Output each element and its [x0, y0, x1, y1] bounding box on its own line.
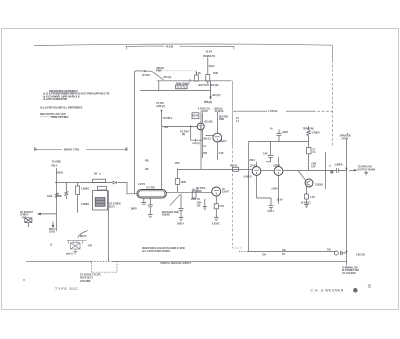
wire B+ arrow	[205, 81, 212, 103]
wire to V1	[162, 126, 198, 128]
svg-text:PIN 1: PIN 1	[250, 160, 256, 162]
svg-text:O.T. PRI: O.T. PRI	[146, 187, 155, 189]
svg-text:OUTPUT TRANS: OUTPUT TRANS	[358, 168, 376, 171]
wire heater column	[202, 113, 204, 159]
svg-text:47K: 47K	[88, 244, 93, 247]
svg-text:+260V: +260V	[271, 188, 278, 190]
values note	[142, 247, 185, 253]
dashed chassis vertical left	[233, 81, 243, 248]
resistor R6	[307, 148, 311, 171]
transistor Q1	[305, 179, 313, 187]
svg-text:pilot lt: pilot lt	[66, 253, 73, 256]
svg-text:FINAL CKT REV: FINAL CKT REV	[51, 116, 69, 119]
svg-text:4700 MMF: 4700 MMF	[80, 280, 91, 283]
wire screen rail	[249, 141, 309, 143]
capacitor C8	[266, 142, 274, 162]
ground under driver	[203, 199, 207, 210]
svg-text:C.H. & WEGNER: C.H. & WEGNER	[311, 289, 344, 293]
svg-text:SECT: SECT	[109, 206, 116, 208]
svg-text:25K: 25K	[58, 196, 63, 198]
wire to socket arrow	[38, 213, 57, 215]
output transformer O.T.	[137, 190, 166, 199]
svg-text:SEE PHOTO LOG 1776: SEE PHOTO LOG 1776	[40, 113, 66, 116]
svg-text:CAP: CAP	[263, 153, 268, 156]
wire center tap B+	[161, 111, 163, 190]
svg-text:TO GRID: TO GRID	[52, 162, 62, 164]
svg-text:4.7K: 4.7K	[219, 205, 224, 208]
svg-text:2-1074: 2-1074	[138, 183, 146, 186]
svg-text:12AU7: 12AU7	[220, 140, 228, 143]
resistor R7	[233, 167, 239, 171]
power switch SW1	[134, 71, 196, 80]
svg-text:6.3VAC: 6.3VAC	[212, 223, 220, 226]
svg-text:③ GATE GENERATOR: ③ GATE GENERATOR	[43, 98, 67, 101]
input curve	[78, 231, 88, 238]
wire AC bus	[140, 71, 232, 91]
svg-text:+15 (C): +15 (C)	[192, 143, 200, 145]
signature	[311, 289, 344, 293]
tube V3	[252, 167, 261, 176]
wire dia line	[237, 110, 334, 112]
resistor R5	[307, 126, 311, 147]
input jack arrow	[52, 222, 54, 228]
neon lamp DS1	[334, 251, 346, 255]
resistor R10	[76, 183, 80, 213]
wire harness drop	[133, 73, 135, 194]
dimension line top	[34, 44, 332, 49]
resistor R8	[55, 193, 58, 198]
resistor R2	[194, 75, 198, 81]
capacitor C5 output	[337, 168, 347, 172]
connector J1	[25, 218, 32, 227]
capacitor C4 + ground	[179, 194, 184, 221]
wire stub V4 top	[278, 157, 280, 167]
svg-text:6X4 (A): 6X4 (A)	[164, 76, 172, 79]
svg-text:+MFD: +MFD	[282, 132, 289, 134]
dashed junction box	[92, 262, 118, 273]
svg-text:MOUNT CTRS: MOUNT CTRS	[64, 149, 79, 151]
resistor R1	[206, 68, 210, 84]
svg-text:12AU7: 12AU7	[222, 191, 230, 194]
node grid junction	[190, 126, 192, 128]
svg-text:470K: 470K	[213, 72, 219, 75]
svg-text:TO SPKR VIA: TO SPKR VIA	[358, 166, 373, 169]
svg-text:50 3/4: 50 3/4	[206, 50, 213, 53]
wire stadium to V2	[166, 191, 212, 193]
svg-text:+330 (B): +330 (B)	[210, 85, 219, 87]
resistor 4ohm tap	[330, 165, 333, 173]
resistor R11	[93, 179, 106, 182]
svg-text:① 12 & TRANSFORMER AMP & HI-VO: ① 12 & TRANSFORMER AMP & HI-VOLT PWR SUP…	[43, 93, 110, 96]
leader matched pair	[170, 195, 180, 206]
capacitor C2 under stadium	[141, 198, 146, 204]
dimension text top	[166, 45, 213, 53]
wire V2 down	[217, 142, 219, 160]
wire driver row	[178, 170, 337, 181]
svg-text:TO PIN 6: TO PIN 6	[196, 188, 206, 190]
svg-text:4.7K: 4.7K	[310, 196, 315, 199]
tube V4	[274, 167, 283, 176]
potentiometer R9	[65, 183, 68, 200]
svg-text:56.6 (A): 56.6 (A)	[204, 101, 212, 104]
svg-text:2.2MEG: 2.2MEG	[81, 189, 90, 191]
svg-text:6CA4: 6CA4	[209, 65, 216, 68]
wire to speaker arrow	[349, 169, 356, 171]
svg-text:100K: 100K	[181, 182, 187, 184]
terminal panel label	[303, 128, 315, 130]
svg-text:+390: +390	[311, 164, 317, 166]
transformer T1	[176, 85, 188, 89]
node +280 tap	[156, 103, 165, 112]
svg-text:2.2K: 2.2K	[219, 153, 224, 155]
svg-text:GND 4: GND 4	[177, 223, 185, 226]
wire mid column	[200, 112, 202, 170]
svg-text:55: 55	[368, 284, 372, 288]
svg-text:TERM 4: TERM 4	[20, 214, 29, 217]
svg-text:TO SOCKET: TO SOCKET	[20, 212, 34, 214]
svg-text:4 7/8 DIA: 4 7/8 DIA	[268, 110, 278, 113]
dimension line mount ctrs	[35, 147, 127, 151]
svg-text:2N3055: 2N3055	[162, 215, 171, 217]
svg-text:-18.5V (C): -18.5V (C)	[300, 202, 311, 204]
svg-text:TYPE 50C: TYPE 50C	[55, 287, 79, 291]
svg-text:117VAC: 117VAC	[142, 74, 151, 77]
svg-text:4700: 4700	[175, 162, 181, 165]
dia arrow	[233, 110, 235, 112]
meter inner	[95, 198, 105, 207]
terminal note	[342, 266, 359, 275]
svg-text:560 (C): 560 (C)	[203, 139, 211, 141]
node period mark	[23, 279, 24, 280]
svg-text:RESISTANCE VALUES IN OHMS K=10: RESISTANCE VALUES IN OHMS K=1000	[142, 247, 185, 250]
svg-text:POWER TR: POWER TR	[203, 56, 215, 58]
wire meter drop	[108, 191, 110, 262]
svg-text:② 4.5 CHANNEL AMPL MARK II B: ② 4.5 CHANNEL AMPL MARK II B	[43, 95, 80, 98]
svg-text:0.1MFD: 0.1MFD	[244, 177, 252, 179]
svg-text:2.5MFD: 2.5MFD	[335, 165, 343, 167]
svg-text:PIN 2: PIN 2	[52, 166, 58, 168]
svg-text:TO OTHER: TO OTHER	[109, 204, 121, 206]
svg-text:-18.5V: -18.5V	[276, 200, 283, 202]
svg-text:(B): (B)	[182, 134, 185, 136]
ground under V4	[257, 198, 274, 209]
svg-text:PWR TRANS: PWR TRANS	[176, 82, 190, 85]
svg-text:MATCHED PAIR: MATCHED PAIR	[162, 211, 179, 214]
svg-text:1N34A: 1N34A	[56, 172, 63, 175]
svg-text:GRID: GRID	[196, 191, 202, 193]
svg-text:PLATES: PLATES	[215, 110, 224, 113]
svg-text:PLATE: PLATE	[230, 165, 238, 168]
wire preamp rail	[55, 183, 137, 194]
svg-text:REFERENCE DRAWINGS: REFERENCE DRAWINGS	[49, 90, 78, 93]
heater column labels	[198, 108, 224, 114]
svg-text:ATOM: ATOM	[342, 137, 349, 140]
svg-text:PWR: PWR	[156, 71, 162, 73]
meter module M1	[93, 191, 108, 211]
svg-text:TO CHASSIS: TO CHASSIS	[342, 272, 356, 275]
ground speaker	[364, 171, 368, 175]
svg-text:TAP: TAP	[311, 165, 316, 168]
svg-text:PWR TR: PWR TR	[191, 199, 200, 201]
bottom bus partial vertical supply	[26, 260, 347, 262]
svg-text:3.3K 5W: 3.3K 5W	[356, 254, 366, 256]
svg-text:CHA 7: CHA 7	[268, 210, 275, 213]
svg-text:TO SOCKET PLATE: TO SOCKET PLATE	[80, 273, 101, 276]
svg-text:JACK: JACK	[49, 230, 56, 233]
svg-text:C13003: C13003	[315, 185, 324, 187]
svg-text:ALL CAPACITORS IN MFD: ALL CAPACITORS IN MFD	[142, 250, 170, 253]
svg-text:SPRAGUE: SPRAGUE	[340, 135, 352, 138]
wire V1 left	[206, 135, 214, 137]
svg-text:IS CONNECTED: IS CONNECTED	[342, 270, 359, 272]
svg-text:TO PIN 8: TO PIN 8	[163, 118, 173, 120]
wire stub V3 top	[256, 162, 258, 167]
svg-text:INPUT: INPUT	[80, 236, 87, 238]
resistor R13	[192, 191, 196, 198]
svg-text:1500: 1500	[197, 202, 203, 204]
svg-text:PWR: PWR	[219, 119, 225, 121]
node output junction	[346, 168, 348, 170]
resistor R12	[98, 186, 107, 190]
svg-text:44 9/16: 44 9/16	[166, 45, 174, 48]
svg-text:+280 (A): +280 (A)	[156, 105, 165, 108]
node bus junction	[346, 251, 348, 253]
svg-text:ALL① FOR VOLUME ALL REFERENCE: ALL① FOR VOLUME ALL REFERENCE	[40, 107, 83, 110]
dashed chassis vertical right	[332, 45, 334, 146]
svg-text:4.7MEG: 4.7MEG	[81, 203, 90, 206]
svg-text:120K: 120K	[47, 196, 53, 198]
wire plate column	[217, 112, 219, 134]
spacer label sprague	[340, 135, 352, 141]
driver section texts	[196, 188, 206, 207]
capacitor C3 + ground	[148, 198, 153, 218]
resistor R16	[175, 169, 180, 193]
registered mark	[353, 288, 357, 292]
jack assembly	[67, 241, 87, 255]
capacitor C1	[277, 130, 282, 142]
wire tick above label	[347, 133, 349, 135]
svg-text:PRI: PRI	[145, 160, 149, 162]
wire cathode loop	[191, 127, 203, 142]
svg-text:Ω: Ω	[99, 172, 101, 175]
title type 50C	[55, 287, 79, 291]
node B+ top	[207, 58, 209, 69]
bus B+ bottom	[239, 251, 335, 253]
svg-text:TERMINAL BD: TERMINAL BD	[342, 266, 358, 269]
svg-text:PARTIAL VERTICAL SUPPLY: PARTIAL VERTICAL SUPPLY	[161, 262, 192, 265]
socket text block	[20, 212, 34, 220]
svg-text:1.2K: 1.2K	[196, 73, 201, 75]
rectifier box U1	[192, 113, 199, 119]
svg-text:+310 (B): +310 (B)	[204, 122, 213, 124]
svg-text:5%: 5%	[282, 254, 285, 256]
wire screen rail drop	[248, 142, 250, 252]
resistor R15 + ground	[304, 187, 308, 208]
tube V5	[212, 187, 221, 196]
sheet number	[368, 284, 372, 288]
left input texts	[52, 162, 64, 175]
wire input bus vertical	[56, 168, 58, 231]
resistor R14 + ground	[214, 196, 219, 221]
svg-text:1MFD: 1MFD	[131, 209, 138, 211]
svg-text:12BH7: 12BH7	[273, 165, 281, 167]
svg-text:+310 (C): +310 (C)	[212, 95, 221, 97]
tube V1	[197, 123, 204, 130]
wire collector up	[325, 152, 327, 189]
svg-text:4.7MEG: 4.7MEG	[312, 132, 321, 135]
tube V2	[213, 133, 222, 142]
svg-text:REAR SECT: REAR SECT	[80, 277, 94, 280]
notes block	[40, 90, 110, 119]
diode D1	[113, 181, 116, 184]
load resistor text	[331, 171, 334, 174]
svg-text:+330 TEST: +330 TEST	[198, 85, 210, 87]
svg-text:TO PIN: TO PIN	[156, 103, 164, 105]
wire V3 bias	[257, 176, 279, 205]
wire output right vertical	[346, 140, 348, 266]
svg-text:6CA4: 6CA4	[192, 114, 199, 117]
resistor 750 label	[282, 250, 287, 256]
